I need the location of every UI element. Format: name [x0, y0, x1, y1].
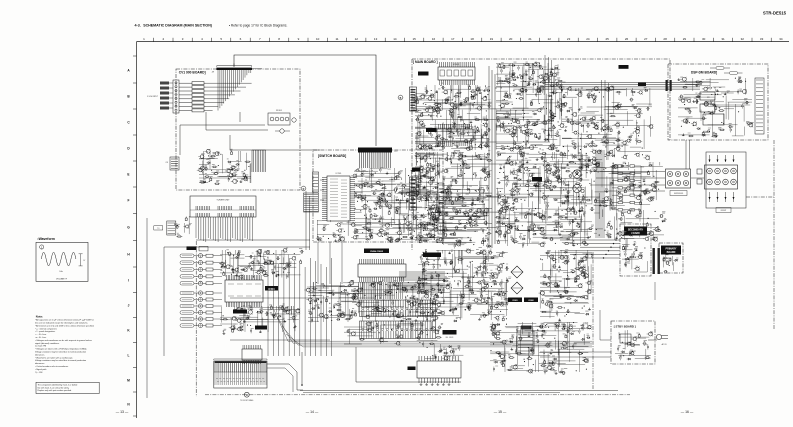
svg-text:• Voltages are taken with a VO: • Voltages are taken with a VOM (Input i… [35, 348, 87, 351]
circuit cluster main NW [412, 85, 492, 151]
wire long left rail [164, 246, 310, 248]
wire bundle to CN501 [230, 258, 340, 356]
circuit cluster switch board right [351, 167, 442, 242]
wire switch drop bus [318, 242, 342, 284]
wire top bus to switch board [234, 55, 376, 146]
svg-text:Replace only with part number: Replace only with part number specified. [38, 389, 73, 392]
potentiometer RV101 [268, 113, 290, 125]
svg-text:32: 32 [741, 37, 745, 41]
svg-text:11: 11 [335, 37, 338, 41]
wire stby bus [540, 352, 611, 357]
svg-text:• △ : internal component.: • △ : internal component. [35, 327, 57, 330]
transistor Q602 big [573, 184, 581, 192]
circuit cluster primary [663, 255, 675, 271]
connector front speaker terminals [705, 165, 738, 189]
svg-text:[ STBY BOARD ]: [ STBY BOARD ] [614, 325, 636, 329]
connector antenna block [167, 221, 176, 235]
svg-text:15: 15 [413, 37, 417, 41]
svg-text:□▷ : FM: □▷ : FM [35, 371, 43, 374]
svg-text:• Waveforms are taken with a o: • Waveforms are taken with a oscilloscop… [35, 356, 73, 359]
IC label black IC302L [426, 128, 437, 132]
circuit cluster main center [495, 152, 595, 248]
svg-text:• ○ : B+ Line.: • ○ : B+ Line. [35, 333, 47, 336]
wire staircase CV1 bus [206, 70, 252, 111]
svg-text:tolerances.: tolerances. [35, 362, 45, 365]
connector surround speaker terminals [666, 169, 691, 188]
board outline PRIMARY BOARD [659, 243, 683, 273]
svg-text:24: 24 [586, 37, 590, 41]
relay RY903 stby [620, 334, 631, 343]
circuit cluster below IC503 [220, 306, 300, 334]
svg-text:— 14 —: — 14 — [306, 410, 319, 414]
circuit cluster AM FM front end [174, 216, 189, 237]
IC label black CN503 [255, 326, 267, 330]
wire comb below IC504 [361, 282, 403, 299]
svg-text:• All resistors are in Ω and 1: • All resistors are in Ω and 1/4W or les… [35, 324, 95, 327]
svg-text:signal (detuned) conditions.: signal (detuned) conditions. [35, 342, 60, 345]
IC IC201 switch control [327, 176, 350, 221]
svg-text:20: 20 [509, 37, 513, 41]
svg-text:tolerances.: tolerances. [35, 353, 45, 356]
wire ribbon CV1 to switch [252, 150, 266, 172]
svg-text:30: 30 [702, 37, 706, 41]
circuit cluster below switch [304, 280, 442, 322]
svg-text:SCHEMATIC DIAGRAM (MAIN SECTIO: SCHEMATIC DIAGRAM (MAIN SECTION) [143, 24, 213, 28]
board outline CV1 BOARD [176, 69, 300, 190]
wire dsp right dash [773, 140, 775, 330]
svg-text:CN504 CN505: CN504 CN505 [370, 250, 384, 253]
connector AC plug [656, 334, 661, 339]
svg-text:[ MAIN BOARD ]: [ MAIN BOARD ] [413, 60, 438, 64]
svg-text:DSP-DM BOARD]: DSP-DM BOARD] [691, 71, 717, 75]
circuit cluster power SE [539, 250, 593, 318]
wire long rails main [415, 109, 600, 197]
svg-text:25: 25 [606, 37, 610, 41]
jumper JW901 [716, 67, 724, 70]
IC IC553 power drive [417, 361, 461, 378]
svg-text:FRONT: FRONT [721, 210, 727, 212]
circuit cluster input select [219, 248, 304, 279]
wire speaker frame [706, 152, 746, 208]
wire front board dash edge [195, 241, 197, 397]
node B circled [398, 95, 403, 100]
rectifier bridge D801 D802 [511, 266, 523, 278]
wire left col [163, 247, 165, 356]
svg-text:— 16 —: — 16 — [681, 410, 694, 414]
transistor Q601 big [573, 170, 581, 178]
circuit cluster main W [412, 152, 492, 249]
circuit cluster lower left main [344, 322, 442, 347]
svg-text:14: 14 [393, 37, 397, 41]
svg-text:— 13 —: — 13 — [116, 410, 129, 414]
top ruler scale [137, 41, 790, 43]
wire vpair right2 [602, 80, 609, 136]
wire secondary links [600, 282, 655, 340]
transistor array Q5xx rows [360, 300, 436, 317]
safety note box [36, 382, 99, 393]
connector CN105 [170, 157, 179, 170]
svg-text:• Voltages and waveforms are d: • Voltages and waveforms are dc with res… [35, 339, 92, 342]
connector CN501 front panel [214, 361, 267, 388]
resistor network CV1 RV stack [173, 80, 179, 113]
svg-text:10: 10 [316, 37, 320, 41]
svg-text:22: 22 [548, 37, 552, 41]
wire fan bottom center rails [274, 310, 592, 341]
connector RCA jack field [180, 254, 194, 257]
wire left of switch [306, 191, 310, 250]
svg-text:•Waveform: •Waveform [37, 237, 54, 241]
svg-text:I: I [128, 278, 129, 282]
wire tuner drops [196, 217, 252, 242]
svg-text:— 15 —: — 15 — [494, 410, 507, 414]
wire bundle to secondary [560, 239, 620, 241]
svg-text:• Circled numbers refer to wav: • Circled numbers refer to waveforms. [35, 365, 69, 368]
circuit cluster switch board left [316, 220, 356, 241]
svg-text:Voltage variations may be note: Voltage variations may be noted due to n… [35, 359, 86, 362]
wire bus switch to main [444, 186, 499, 232]
IC label black CN502 [187, 246, 197, 250]
svg-text:line with mark ⚠ are critical: line with mark ⚠ are critical for safety… [38, 386, 70, 389]
svg-text:The components identified by m: The components identified by mark ⚠ or d… [38, 383, 78, 386]
svg-text:AC IN: AC IN [662, 343, 667, 346]
svg-text:IC503: IC503 [268, 289, 275, 291]
input terminal labels CV1 [160, 82, 169, 85]
IC IC301 [438, 67, 475, 80]
svg-text:• Signal path.: • Signal path. [35, 368, 47, 371]
wire main center bus [489, 66, 495, 248]
svg-text:L: L [128, 353, 130, 357]
circuit cluster stby [615, 330, 653, 360]
node D circled [301, 186, 306, 191]
circuit cluster main E output [590, 160, 664, 242]
connector CN202 [304, 193, 319, 212]
IC IC504 DSP [358, 264, 406, 277]
fuse F901 [663, 258, 671, 261]
svg-text:18: 18 [470, 37, 474, 41]
wire speaker connect [590, 140, 704, 191]
svg-text:12: 12 [355, 37, 359, 41]
IC label black IC552 [233, 310, 247, 314]
circuit cluster main N center [496, 62, 567, 152]
svg-text:no mark: FM: no mark: FM [35, 346, 47, 348]
IC label black NE2 [638, 83, 646, 87]
wire bundle main to DSP with beads [545, 83, 700, 90]
connector CN301 main left [410, 87, 417, 111]
connector CN201 switch ribbon [358, 148, 392, 153]
transformer T902 secondary-primary [653, 248, 655, 274]
IC IC551 [242, 349, 262, 360]
left ruler scale [136, 42, 138, 418]
circuit cluster main NE [562, 86, 653, 162]
IC label black NE top [619, 65, 629, 69]
svg-text:Voltage variations may be note: Voltage variations may be noted due to n… [35, 351, 86, 354]
svg-text:SURROUND: SURROUND [674, 193, 684, 195]
svg-text:B: B [400, 97, 402, 100]
circuit cluster power S [490, 322, 592, 374]
svg-text:TUNER UNIT: TUNER UNIT [216, 200, 230, 202]
wire CV1 internal [180, 112, 320, 155]
svg-text:1kHz: 1kHz [59, 271, 63, 273]
svg-text:26: 26 [625, 37, 629, 41]
svg-text:13: 13 [374, 37, 378, 41]
node E circled [447, 196, 452, 201]
IC label black IC301L [418, 72, 429, 76]
transistor Q101 [280, 129, 284, 133]
board label PRIMARY [661, 246, 681, 255]
wire connector to rail [267, 364, 303, 390]
IC label black center [532, 177, 542, 182]
IC IC302 [437, 129, 473, 141]
circuit cluster DSP [678, 77, 753, 137]
resistor ladder output stage [618, 165, 623, 167]
svg-text:CV1 900 BOARD]: CV1 900 BOARD] [179, 70, 206, 74]
wire bottom dash rail [300, 390, 618, 392]
svg-text:5.1CH INPUT: 5.1CH INPUT [147, 96, 159, 98]
connector CN101 CV1 ribbon [217, 63, 252, 66]
circuit cluster above IC553 [425, 344, 463, 361]
connector comb rows CN507 [400, 271, 444, 279]
IC IC801 IC802 regulators [508, 298, 522, 303]
svg-text:REL DRIVE: REL DRIVE [446, 337, 454, 339]
svg-text:34: 34 [779, 37, 783, 41]
relay RY901 RY902 [700, 92, 715, 100]
wire stby to plug [631, 340, 657, 345]
svg-text:J: J [128, 303, 130, 307]
board outline SECONDARY BOARD [620, 224, 651, 276]
svg-text:19: 19 [490, 37, 494, 41]
svg-text:27: 27 [644, 37, 648, 41]
svg-text:BOARD: BOARD [667, 251, 676, 254]
svg-text:M: M [127, 378, 130, 382]
svg-text:E: E [127, 172, 129, 176]
connector CN902 DSP right [755, 78, 764, 134]
svg-text:A: A [246, 394, 248, 397]
connector CN302 main left lower [410, 177, 417, 210]
jumper JW902 [730, 72, 738, 75]
wire array to IC553 [302, 347, 461, 385]
svg-text:IC301: IC301 [453, 64, 460, 66]
node A bottom [244, 392, 249, 397]
wire right dash rail [592, 252, 594, 389]
board outline DSP-DM BOARD [668, 64, 768, 140]
svg-text:• ● : B– Line.: • ● : B– Line. [35, 337, 47, 339]
svg-text:JW: JW [212, 71, 215, 73]
svg-text:28: 28 [663, 37, 667, 41]
svg-text:• □ : panel designation.: • □ : panel designation. [35, 330, 56, 333]
svg-text:21: 21 [528, 37, 532, 41]
svg-text:CN?: CN? [394, 151, 398, 153]
svg-text:29: 29 [683, 37, 687, 41]
board label SECONDARY [624, 227, 647, 236]
IC label black CN204 [412, 168, 420, 172]
svg-text:IC801: IC801 [512, 300, 518, 302]
wire bundle down x600 [596, 150, 604, 238]
svg-text:RV101: RV101 [276, 110, 283, 112]
svg-text:• All capacitors are in µF unl: • All capacitors are in µF unless otherw… [35, 319, 94, 322]
svg-text:• Refer to page 17 for IC Bloc: • Refer to page 17 for IC Block Diagrams… [229, 24, 288, 28]
svg-text:Note:: Note: [36, 315, 43, 319]
svg-text:31: 31 [721, 37, 725, 41]
svg-text:[SWITCH BOARD]: [SWITCH BOARD] [318, 154, 346, 158]
connector CN504 label [364, 249, 389, 254]
circuit cluster power NW [415, 249, 509, 321]
IC label black CN506 [423, 253, 441, 258]
circuit cluster secondary [622, 238, 648, 272]
wire left vertical rail [146, 218, 148, 398]
transformer T901 [517, 331, 534, 354]
svg-text:VOLUME ③: VOLUME ③ [56, 277, 67, 280]
svg-text:IC201: IC201 [336, 173, 343, 175]
svg-text:D: D [303, 188, 305, 191]
connector CN203 [438, 183, 444, 234]
svg-text:STR-DE515: STR-DE515 [763, 11, 787, 16]
board outline SWITCH BOARD [313, 150, 443, 242]
wire vpair right1 [545, 55, 552, 142]
circuit cluster CV1 audio [197, 149, 251, 184]
svg-text:less are not indicated except: less are not indicated except for electr… [35, 322, 88, 325]
IC label black IC505 [443, 330, 457, 335]
svg-text:IC802: IC802 [528, 300, 534, 302]
IC tuner unit TU101 [190, 196, 256, 217]
svg-text:4-3.: 4-3. [135, 24, 141, 28]
wire bottom left rail [205, 394, 630, 396]
svg-text:23: 23 [567, 37, 571, 41]
svg-text:33: 33 [760, 37, 764, 41]
svg-text:16: 16 [432, 37, 436, 41]
board outline MAIN BOARD [412, 59, 670, 250]
op-amp IC503 [225, 280, 263, 302]
svg-text:17: 17 [451, 37, 455, 41]
svg-text:F: F [128, 198, 130, 202]
board outline STBY BOARD [611, 321, 655, 364]
